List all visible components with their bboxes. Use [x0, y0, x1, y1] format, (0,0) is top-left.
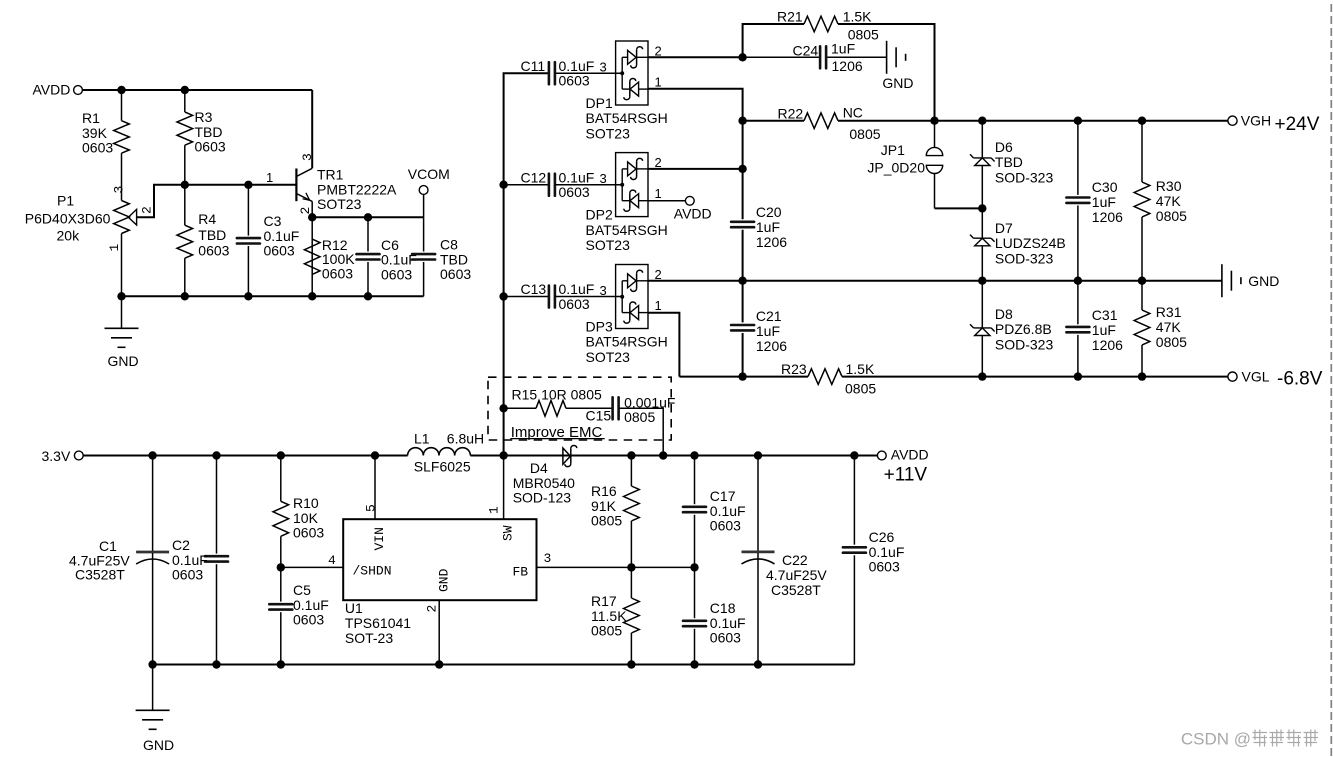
diode-pair DP1	[616, 41, 648, 105]
svg-text:1uF: 1uF	[756, 219, 780, 235]
capacitor C17	[694, 456, 696, 505]
svg-text:MBR0540: MBR0540	[513, 475, 575, 491]
svg-text:D8: D8	[995, 306, 1013, 322]
svg-text:BAT54RSGH: BAT54RSGH	[586, 222, 668, 238]
svg-text:R4: R4	[198, 211, 216, 227]
svg-text:39K: 39K	[82, 125, 108, 141]
svg-text:1206: 1206	[832, 58, 863, 74]
ground GND (at C24)	[886, 41, 888, 74]
svg-text:1206: 1206	[1092, 209, 1123, 225]
svg-text:2: 2	[298, 207, 313, 215]
wire P1 wiper to base node	[137, 185, 185, 217]
svg-text:C3528T: C3528T	[771, 582, 821, 598]
node DP2 out	[738, 165, 746, 173]
transistor TR1	[295, 169, 297, 202]
port AVDD (DP2 pin1)	[648, 200, 685, 202]
svg-text:2: 2	[655, 44, 662, 59]
svg-text:R21: R21	[777, 9, 803, 25]
svg-text:0603: 0603	[264, 243, 295, 259]
svg-text:0805: 0805	[591, 623, 622, 639]
svg-text:C17: C17	[710, 488, 736, 504]
svg-text:DP2: DP2	[586, 207, 613, 223]
svg-text:U1: U1	[345, 600, 363, 616]
svg-text:3: 3	[600, 60, 607, 75]
node SHDN	[277, 563, 285, 571]
svg-text:0.1uF: 0.1uF	[264, 228, 300, 244]
capacitor C5	[280, 567, 282, 601]
svg-text:1: 1	[266, 170, 273, 185]
svg-text:AVDD: AVDD	[33, 82, 71, 98]
wire charge-pump bus vertical	[742, 121, 744, 220]
svg-text:1: 1	[655, 75, 662, 90]
svg-text:1206: 1206	[1092, 337, 1123, 353]
node bus-C12	[499, 181, 507, 189]
node VGH dots	[930, 117, 938, 125]
capacitor C24	[743, 56, 819, 58]
svg-text:R1: R1	[82, 110, 100, 126]
svg-text:C11: C11	[521, 58, 546, 74]
svg-text:SLF6025: SLF6025	[414, 458, 471, 474]
node emitter	[308, 213, 316, 221]
svg-text:C6: C6	[381, 237, 399, 253]
diode D6	[981, 121, 983, 158]
svg-text:C20: C20	[756, 204, 782, 220]
resistor R22	[743, 120, 804, 122]
svg-text:TR1: TR1	[317, 167, 344, 183]
svg-text:0603: 0603	[440, 266, 471, 282]
port AVDD (top-left)	[74, 86, 83, 95]
svg-text:R23: R23	[781, 361, 807, 377]
svg-text:C3: C3	[264, 213, 282, 229]
node rail dots	[117, 292, 125, 300]
svg-text:0.1uF: 0.1uF	[559, 281, 595, 297]
svg-text:47K: 47K	[1156, 193, 1182, 209]
node rail dots 2	[148, 451, 156, 459]
capacitor C2	[216, 456, 218, 554]
svg-text:0603: 0603	[559, 73, 590, 89]
svg-text:TBD: TBD	[195, 124, 223, 140]
capacitor C26	[853, 456, 855, 545]
wire bottom rail	[153, 664, 855, 666]
svg-text:SOT23: SOT23	[586, 349, 631, 365]
svg-text:0.1uF: 0.1uF	[559, 169, 595, 185]
resistor R21	[804, 16, 838, 32]
svg-text:JP_0D20: JP_0D20	[867, 160, 925, 176]
svg-text:C15: C15	[586, 408, 612, 424]
node FB-R16	[627, 563, 635, 571]
dashed page edge (right)	[1330, 4, 1332, 757]
wire DP1 pin1 down to R22 row	[648, 89, 743, 121]
svg-text:0603: 0603	[869, 559, 900, 575]
svg-text:0603: 0603	[381, 266, 412, 282]
resistor R10	[280, 456, 282, 502]
svg-text:D6: D6	[995, 139, 1013, 155]
wire JP1 to D6/D7 node	[935, 207, 983, 209]
node bus-C13	[499, 292, 507, 300]
resistor R16	[630, 456, 632, 487]
svg-text:SOT23: SOT23	[586, 237, 631, 253]
resistor R17	[630, 567, 632, 598]
port VGL -6.8V	[1228, 372, 1237, 381]
svg-text:TPS61041: TPS61041	[345, 615, 411, 631]
svg-text:LUDZS24B: LUDZS24B	[995, 235, 1066, 251]
svg-text:0805: 0805	[591, 513, 622, 529]
node rail dots 3	[627, 451, 635, 459]
pin 1 SW	[503, 456, 505, 520]
svg-text:1.5K: 1.5K	[846, 361, 875, 377]
resistor R15	[504, 407, 536, 409]
svg-text:0603: 0603	[198, 243, 229, 259]
port VCOM	[423, 194, 425, 217]
node D6-D7	[978, 204, 986, 212]
resistor R23	[808, 369, 842, 385]
svg-text:TBD: TBD	[198, 227, 226, 243]
diode-pair DP3	[616, 265, 648, 329]
ic U1 TPS61041	[343, 519, 536, 600]
svg-text:1uF: 1uF	[831, 40, 855, 56]
resistor R1	[121, 90, 123, 121]
svg-text:FB: FB	[513, 565, 529, 580]
svg-text:3: 3	[544, 551, 552, 566]
svg-text:L1: L1	[414, 431, 430, 447]
svg-text:C24: C24	[793, 42, 819, 58]
svg-text:0603: 0603	[195, 139, 226, 155]
svg-text:C8: C8	[440, 237, 458, 253]
capacitor C13	[504, 296, 548, 298]
wire R21 to VGH node	[838, 24, 935, 121]
svg-text:0603: 0603	[710, 630, 741, 646]
svg-text:PMBT2222A: PMBT2222A	[317, 181, 397, 197]
node AVDD-R3	[181, 86, 189, 94]
svg-text:C13: C13	[521, 281, 547, 297]
svg-text:2: 2	[425, 605, 440, 613]
svg-text:GND: GND	[1248, 273, 1279, 289]
svg-text:R16: R16	[591, 483, 617, 499]
potentiometer P1	[114, 201, 130, 234]
wire DP3 pin2 / GND row	[648, 280, 1222, 282]
inductor L1	[408, 448, 471, 456]
diode-pair DP2	[616, 153, 648, 217]
svg-text:3: 3	[112, 186, 127, 194]
svg-text:R15 10R 0805: R15 10R 0805	[512, 387, 603, 403]
svg-text:D4: D4	[530, 460, 548, 476]
wire SW rail	[470, 455, 877, 457]
svg-text:R17: R17	[591, 593, 617, 609]
svg-text:3: 3	[600, 283, 607, 298]
node AVDD-R1	[117, 86, 125, 94]
svg-text:C31: C31	[1092, 307, 1118, 323]
wire DP3 pin1 down to VGL	[648, 313, 679, 377]
port VGH +24V	[1228, 116, 1237, 125]
svg-text:4: 4	[328, 553, 336, 568]
capacitor C22	[757, 456, 759, 552]
svg-text:3: 3	[600, 171, 607, 186]
node R15 tap	[499, 404, 507, 412]
svg-text:SOD-323: SOD-323	[995, 336, 1054, 352]
svg-text:GND: GND	[437, 568, 452, 592]
svg-text:TBD: TBD	[995, 154, 1023, 170]
wire C15 down to rail	[619, 408, 663, 455]
svg-text:JP1: JP1	[881, 142, 905, 158]
svg-text:C21: C21	[756, 308, 782, 324]
node DP1 out	[738, 53, 746, 61]
svg-text:R10: R10	[293, 495, 319, 511]
svg-text:0.1uF: 0.1uF	[559, 58, 595, 74]
svg-text:1206: 1206	[756, 338, 787, 354]
svg-text:SOD-323: SOD-323	[995, 250, 1054, 266]
svg-text:0603: 0603	[293, 612, 324, 628]
svg-text:CSDN @: CSDN @	[1181, 730, 1251, 749]
resistor R31	[1141, 281, 1143, 310]
wire bottom rail left block	[122, 295, 424, 297]
port 3.3V	[74, 451, 83, 460]
node VGL dots	[978, 372, 986, 380]
svg-text:GND: GND	[108, 353, 139, 369]
svg-text:SW: SW	[501, 525, 516, 541]
svg-text:91K: 91K	[591, 498, 617, 514]
svg-text:0805: 0805	[849, 126, 880, 142]
resistor R12	[304, 239, 320, 274]
svg-text:/SHDN: /SHDN	[353, 564, 392, 579]
ground GND (left)	[121, 296, 123, 328]
svg-text:4.7uF25V: 4.7uF25V	[766, 567, 827, 583]
port AVDD +11V	[877, 451, 886, 460]
capacitor C8	[423, 217, 425, 251]
capacitor C20	[731, 221, 754, 224]
node SW	[499, 451, 507, 459]
svg-text:VCOM: VCOM	[408, 166, 450, 182]
svg-text:PDZ6.8B: PDZ6.8B	[995, 321, 1052, 337]
svg-text:R3: R3	[195, 109, 213, 125]
svg-text:2: 2	[655, 155, 662, 170]
svg-text:3.3V: 3.3V	[42, 448, 71, 464]
wire left bus of flying caps	[504, 73, 548, 455]
dashed box Improve EMC	[488, 377, 671, 440]
svg-text:47K: 47K	[1156, 319, 1182, 335]
resistor R30	[1141, 121, 1143, 182]
svg-text:C5: C5	[293, 582, 311, 598]
svg-text:VGH: VGH	[1241, 113, 1271, 129]
svg-text:1: 1	[487, 506, 502, 514]
capacitor C18	[694, 567, 696, 618]
svg-text:+24V: +24V	[1275, 114, 1320, 135]
wire DP1 pin2 to C24 node	[648, 56, 743, 58]
ground GND (right)	[1221, 264, 1223, 297]
svg-text:0.1uF: 0.1uF	[710, 615, 746, 631]
svg-text:1uF: 1uF	[1092, 322, 1116, 338]
svg-text:0805: 0805	[1156, 334, 1187, 350]
svg-text:C22: C22	[782, 552, 808, 568]
svg-text:0805: 0805	[845, 381, 876, 397]
svg-text:0603: 0603	[82, 140, 113, 156]
svg-text:P6D40X3D60: P6D40X3D60	[25, 210, 111, 226]
capacitor C11	[548, 62, 551, 84]
svg-text:C30: C30	[1092, 179, 1118, 195]
svg-text:SOD-323: SOD-323	[995, 169, 1054, 185]
node GND row dots	[978, 277, 986, 285]
svg-text:0603: 0603	[559, 296, 590, 312]
svg-text:SOT23: SOT23	[586, 125, 631, 141]
svg-text:NC: NC	[843, 105, 863, 121]
svg-text:0603: 0603	[559, 184, 590, 200]
svg-text:AVDD: AVDD	[891, 447, 929, 463]
capacitor C12	[504, 184, 548, 186]
svg-text:C3528T: C3528T	[75, 567, 125, 583]
capacitor C21	[731, 324, 754, 327]
node VGL-C21	[738, 372, 746, 380]
svg-text:11.5K: 11.5K	[591, 608, 627, 624]
svg-text:0603: 0603	[172, 567, 203, 583]
svg-text:0.1uF: 0.1uF	[869, 544, 905, 560]
svg-text:0.1uF: 0.1uF	[710, 503, 746, 519]
wire VCOM row	[312, 216, 423, 218]
svg-text:P1: P1	[57, 192, 74, 208]
capacitor C6	[367, 217, 369, 251]
svg-text:1206: 1206	[756, 234, 787, 250]
svg-text:C18: C18	[710, 600, 736, 616]
svg-text:0603: 0603	[710, 518, 741, 534]
wire VGH rail	[935, 120, 1228, 122]
svg-text:0.1uF: 0.1uF	[293, 597, 329, 613]
svg-text:R30: R30	[1156, 178, 1182, 194]
svg-text:SOT-23: SOT-23	[345, 630, 393, 646]
resistor R3	[184, 90, 186, 112]
wire 3.3V rail	[83, 455, 407, 457]
node FB-C18	[690, 563, 698, 571]
svg-text:DP3: DP3	[586, 318, 613, 334]
capacitor C31	[1077, 281, 1079, 325]
pin 2 GND	[438, 600, 440, 664]
pin 3 FB	[537, 566, 695, 568]
svg-text:DP1: DP1	[586, 95, 613, 111]
svg-text:C2: C2	[172, 537, 190, 553]
wire VGL row	[679, 376, 808, 378]
svg-text:6.8uH: 6.8uH	[447, 431, 484, 447]
svg-text:0805: 0805	[624, 409, 655, 425]
svg-text:SOD-123: SOD-123	[513, 490, 572, 506]
svg-text:1uF: 1uF	[1092, 194, 1116, 210]
svg-text:1: 1	[655, 186, 662, 201]
wire R21 branch up	[743, 24, 804, 57]
svg-text:D7: D7	[995, 220, 1013, 236]
wire TR1 emitter down	[311, 201, 313, 296]
svg-text:GND: GND	[143, 737, 174, 753]
svg-text:-6.8V: -6.8V	[1277, 369, 1323, 390]
svg-text:1uF: 1uF	[756, 323, 780, 339]
diode D7	[981, 208, 983, 238]
pin 5 VIN	[374, 456, 376, 520]
wire AVDD rail to TR1 collector	[82, 89, 312, 91]
svg-text:2: 2	[140, 206, 155, 214]
diode D8	[981, 281, 983, 328]
wire SHDN row	[281, 566, 343, 568]
svg-text:1: 1	[107, 244, 122, 252]
svg-text:GND: GND	[882, 75, 913, 91]
node R22 tap	[738, 117, 746, 125]
svg-text:SOT23: SOT23	[317, 196, 362, 212]
svg-text:BAT54RSGH: BAT54RSGH	[586, 334, 668, 350]
diode D4	[563, 448, 571, 464]
svg-text:C12: C12	[521, 169, 547, 185]
svg-text:0.1uF: 0.1uF	[172, 552, 208, 568]
node base junction	[181, 181, 189, 189]
svg-text:+11V: +11V	[884, 465, 928, 486]
svg-text:10K: 10K	[293, 510, 319, 526]
ground GND (bottom)	[152, 665, 154, 711]
svg-text:3: 3	[300, 153, 315, 161]
jumper JP1	[934, 121, 936, 148]
svg-text:1: 1	[655, 298, 662, 313]
svg-text:0603: 0603	[293, 525, 324, 541]
capacitor C1	[152, 456, 154, 552]
capacitor C3	[247, 185, 249, 236]
wire DP2 pin2 to bus	[648, 168, 743, 170]
capacitor C30	[1077, 121, 1079, 195]
wire base row	[185, 184, 297, 186]
capacitor C15	[611, 397, 614, 419]
svg-text:TBD: TBD	[440, 251, 468, 267]
svg-text:0805: 0805	[1156, 208, 1187, 224]
svg-text:1.5K: 1.5K	[843, 9, 872, 25]
svg-text:20k: 20k	[57, 228, 81, 244]
svg-text:VIN: VIN	[372, 527, 387, 550]
svg-text:C26: C26	[869, 529, 895, 545]
svg-text:AVDD: AVDD	[674, 205, 712, 221]
node bottom rail dots	[148, 660, 156, 668]
svg-text:0603: 0603	[322, 265, 353, 281]
svg-text:R31: R31	[1156, 304, 1182, 320]
svg-text:BAT54RSGH: BAT54RSGH	[586, 110, 668, 126]
svg-text:R22: R22	[778, 106, 804, 122]
svg-text:5: 5	[364, 504, 379, 512]
resistor R4	[184, 185, 186, 225]
node DP3 out	[738, 277, 746, 285]
svg-text:VGL: VGL	[1242, 369, 1270, 385]
